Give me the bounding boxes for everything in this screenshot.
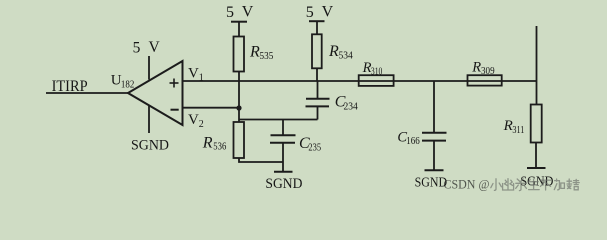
ground bar under R311	[527, 167, 546, 169]
char xiao	[491, 179, 502, 191]
svg-text:166: 166	[406, 136, 420, 147]
svg-text:SGND: SGND	[415, 175, 448, 190]
svg-text:5: 5	[133, 39, 141, 56]
wire 5V bar to R534	[316, 22, 318, 35]
svg-text:235: 235	[308, 143, 321, 154]
svg-text:SGND: SGND	[131, 137, 169, 153]
svg-text:V: V	[188, 65, 199, 81]
wire rail to C166 top	[433, 81, 435, 133]
op-amp plus input marker	[170, 79, 179, 88]
svg-text:5: 5	[226, 4, 234, 21]
svg-text:234: 234	[344, 101, 359, 112]
resistor R309 body	[468, 75, 502, 85]
ground bar under C235	[274, 171, 293, 173]
char bu	[540, 180, 550, 190]
svg-text:R: R	[202, 135, 213, 152]
capacitor C235 plates	[271, 134, 296, 136]
char you	[503, 179, 514, 190]
svg-text:V: V	[242, 4, 254, 21]
svg-text:1: 1	[199, 73, 204, 84]
wire rail to C234 top	[317, 81, 319, 99]
wire top-right vertical	[536, 26, 538, 105]
svg-text:309: 309	[481, 66, 495, 77]
wire R535 bottom through V1 to node	[238, 72, 240, 123]
node V1 rail wire	[183, 80, 537, 82]
svg-text:535: 535	[260, 51, 274, 62]
resistor R310 body	[359, 75, 394, 86]
svg-text:2: 2	[199, 119, 204, 130]
wire V2 from op-amp to junction	[183, 107, 240, 109]
svg-text:R: R	[249, 44, 260, 61]
op-amp minus input marker	[171, 109, 179, 111]
power bar 5V R534	[309, 20, 325, 22]
wire C234 bottom stub	[317, 107, 319, 120]
power bar 5V R535	[231, 21, 247, 23]
junction node dot	[236, 105, 241, 110]
resistor R536 body	[234, 122, 245, 158]
resistor R534 body	[312, 34, 322, 68]
wire C235 top stub	[282, 120, 284, 136]
char sheng	[528, 179, 539, 190]
capacitor C166 plates	[422, 132, 447, 134]
svg-text:ITIRP: ITIRP	[52, 78, 88, 95]
wire 5V bar to R535	[238, 22, 240, 37]
svg-text:536: 536	[213, 142, 226, 153]
resistor R311 body	[531, 105, 542, 143]
svg-text:5: 5	[306, 4, 314, 21]
svg-text:V: V	[188, 112, 199, 128]
svg-text:V: V	[322, 4, 334, 21]
wire C166 bottom to SGND bar	[433, 141, 435, 170]
resistor R535 body	[234, 37, 245, 72]
svg-text:R: R	[471, 60, 481, 76]
svg-text:R: R	[328, 43, 339, 60]
char jia	[554, 179, 564, 190]
svg-text:R: R	[503, 118, 513, 134]
svg-text:310: 310	[371, 66, 383, 77]
svg-text:534: 534	[339, 50, 354, 61]
wire R536 bottom to SGND column	[239, 158, 283, 162]
ground bar under C166	[425, 169, 444, 171]
wire 5V to op-amp top	[148, 56, 150, 80]
watermark CSDN	[444, 178, 580, 192]
svg-text:SGND: SGND	[265, 176, 302, 192]
wire branch to C235/C234 bottom	[239, 119, 318, 121]
capacitor C234 plates	[306, 98, 330, 100]
svg-text:CSDN @: CSDN @	[444, 178, 490, 192]
svg-text:V: V	[149, 39, 161, 56]
op-amp U182 triangle	[128, 61, 183, 125]
svg-text:311: 311	[512, 125, 524, 136]
wire C235 bottom to SGND bar	[282, 143, 284, 171]
char sha	[516, 179, 527, 191]
wire R311 bottom to SGND bar	[535, 143, 537, 168]
char tang	[567, 179, 579, 190]
wire R534 bottom to rail	[316, 68, 318, 81]
wire op-amp bottom to SGND	[148, 105, 150, 133]
svg-text:182: 182	[121, 80, 134, 91]
wire ITIRP to op-amp output	[46, 92, 129, 94]
